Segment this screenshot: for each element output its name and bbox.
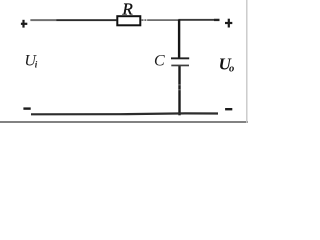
svg-text:C: C xyxy=(154,53,165,70)
wire top left xyxy=(30,19,116,21)
terminal - (output negative) xyxy=(225,108,232,110)
node junction wire down to capacitor xyxy=(178,20,180,58)
wire gap texture after resistor xyxy=(143,19,147,21)
resistor R xyxy=(117,16,140,25)
svg-text:o: o xyxy=(229,64,234,75)
wire bottom xyxy=(31,112,218,115)
terminal + (output positive) xyxy=(225,19,232,28)
terminal - (input negative) xyxy=(23,107,30,109)
terminal + (input positive) xyxy=(21,20,27,28)
capacitor C top plate xyxy=(171,57,189,59)
wire capacitor to bottom xyxy=(178,66,180,115)
svg-text:R: R xyxy=(121,0,133,19)
capacitor C bottom plate xyxy=(171,65,189,67)
wire top right xyxy=(141,19,178,21)
